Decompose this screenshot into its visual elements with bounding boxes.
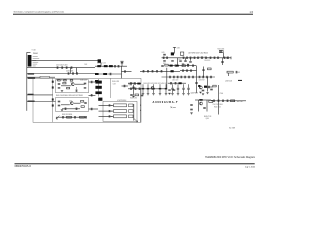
wire buf bottom bbox=[62, 108, 80, 110]
capacitor C497 bbox=[202, 89, 205, 92]
ground C497 bbox=[202, 94, 204, 95]
wire osc out right bbox=[89, 108, 99, 110]
capacitor C482 bbox=[176, 76, 179, 79]
wire mb v3 bbox=[207, 77, 209, 92]
resistor R424 bbox=[219, 50, 223, 52]
wire box inner right bbox=[109, 78, 111, 98]
varactor network D1 bbox=[129, 104, 134, 107]
inductor L412 bbox=[109, 65, 113, 67]
svg-text:P4001: P4001 bbox=[33, 53, 38, 55]
svg-text:B+ 9.6V: B+ 9.6V bbox=[229, 128, 236, 130]
wire mb v2 bbox=[196, 66, 198, 93]
capacitor C458 bbox=[205, 57, 208, 60]
capacitor C463 bbox=[174, 64, 177, 67]
inductor L421 bbox=[170, 65, 173, 67]
capacitor C488 bbox=[130, 94, 133, 97]
capacitor C422 bbox=[75, 89, 78, 92]
arrow bottom adjust bbox=[56, 116, 59, 119]
arrow resonator adjust bbox=[134, 118, 138, 122]
resistor R410 bbox=[80, 101, 83, 103]
wire mb row2 bbox=[162, 76, 216, 78]
inductor L4 block bbox=[98, 59, 101, 63]
capacitor C444 bbox=[109, 73, 112, 76]
wire mb row3 bbox=[128, 83, 141, 85]
capacitor C505 bbox=[235, 71, 238, 74]
capacitor C512 bbox=[203, 107, 206, 110]
capacitor C464 bbox=[192, 64, 195, 67]
resistor R403 bbox=[63, 82, 66, 84]
wire net A to buffer bbox=[31, 60, 98, 62]
connector pin label TX/RX SW bbox=[33, 57, 40, 60]
resistor R428 bbox=[182, 65, 185, 67]
inductor L414 bbox=[103, 73, 107, 75]
ground osc bbox=[61, 90, 63, 91]
svg-text:C408: C408 bbox=[84, 64, 87, 66]
capacitor C441 bbox=[117, 65, 120, 68]
capacitor C478 bbox=[130, 82, 133, 85]
svg-text:R445 C513: R445 C513 bbox=[204, 116, 211, 118]
capacitor C491 shunt bbox=[147, 84, 149, 93]
capacitor C488 bbox=[202, 76, 205, 79]
svg-text:C456 R426: C456 R426 bbox=[204, 60, 210, 62]
svg-text:Schematics, Component Location: Schematics, Component Location Diagrams,… bbox=[14, 11, 65, 14]
capacitor C457a bbox=[223, 57, 226, 60]
svg-text:C481 C483: C481 C483 bbox=[172, 80, 178, 82]
capacitor C481 bbox=[172, 76, 175, 79]
capacitor C423 bbox=[84, 82, 87, 85]
capacitor C504 bbox=[226, 100, 229, 103]
wire q406 e bbox=[198, 100, 200, 112]
inductor L422 bbox=[171, 70, 174, 72]
svg-text:C401 C402 C403: C401 C402 C403 bbox=[56, 64, 67, 66]
svg-text:R442: R442 bbox=[237, 72, 240, 74]
capacitor C471 bbox=[147, 70, 150, 73]
svg-text:L419: L419 bbox=[162, 52, 165, 54]
connector P4001 pin block bbox=[28, 55, 32, 67]
inductor L427 bbox=[199, 99, 202, 101]
node resonator a bbox=[139, 104, 142, 107]
ground comb 5 bbox=[171, 94, 173, 95]
capacitor C486 bbox=[134, 88, 137, 91]
connector pin label GND bbox=[33, 65, 36, 68]
capacitor C462 bbox=[189, 60, 192, 63]
wire net C bus bbox=[27, 73, 95, 75]
wire rm vertical bbox=[217, 85, 219, 115]
capacitor C501 bbox=[213, 100, 216, 103]
inductor L406 block bbox=[95, 86, 101, 89]
tick divider 4 bbox=[52, 104, 54, 106]
wire c448 link bbox=[122, 85, 129, 87]
svg-text:HLE9808A 800 MHz VCO: Schemati: HLE9808A 800 MHz VCO: Schematic Diagram bbox=[205, 156, 255, 159]
capacitor C461 bbox=[184, 60, 187, 63]
ground comb 1 bbox=[147, 94, 149, 95]
capacitor C449b bbox=[171, 59, 174, 62]
svg-text:L410 L411 C440: L410 L411 C440 bbox=[97, 63, 106, 65]
connector pin label SYNTH V bbox=[33, 61, 39, 64]
capacitor C421 bbox=[58, 86, 61, 89]
capacitor C4511 bbox=[217, 57, 220, 60]
capacitor C4810 bbox=[210, 76, 213, 79]
node tr bus a bbox=[191, 56, 194, 59]
capacitor C498 bbox=[210, 88, 213, 91]
capacitor C438b bbox=[90, 108, 93, 111]
capacitor C457b bbox=[227, 57, 230, 60]
resistor R440 bbox=[231, 100, 235, 102]
capacitor C465 bbox=[187, 64, 190, 67]
ground v3 bbox=[206, 92, 208, 93]
resistor R444 bbox=[209, 100, 213, 102]
wire resonator right bus bbox=[140, 88, 142, 122]
stripline Z3 bbox=[114, 115, 127, 118]
wire buf base bbox=[61, 104, 70, 106]
capacitor C459 bbox=[221, 61, 224, 64]
capacitor C483 bbox=[180, 76, 183, 79]
node stripline 3 bbox=[110, 115, 113, 118]
capacitor Cfeed2 bbox=[108, 110, 111, 112]
capacitor C510 bbox=[190, 104, 193, 107]
capacitor C486 bbox=[192, 76, 195, 79]
wire tr stub3 bbox=[190, 58, 192, 61]
net label MOD bbox=[28, 94, 34, 95]
wire net D cont bbox=[50, 76, 56, 78]
capacitor C479 bbox=[134, 82, 137, 85]
capacitor C404 bbox=[70, 66, 73, 69]
svg-text:R416 C438: R416 C438 bbox=[112, 81, 119, 83]
capacitor C406 bbox=[72, 72, 75, 75]
capacitor C447 bbox=[132, 86, 135, 89]
capacitor C454 bbox=[189, 57, 192, 60]
wire stripline 2 feed bbox=[99, 110, 114, 112]
capacitor C433 bbox=[62, 116, 65, 119]
svg-text:L430 C506: L430 C506 bbox=[225, 81, 232, 83]
wire stripline 1 feed bbox=[99, 104, 114, 106]
capacitor C492 shunt bbox=[152, 84, 154, 93]
wire left vertical bus bbox=[26, 52, 28, 111]
resistor R413 bbox=[67, 116, 72, 118]
inductor L408 block bbox=[98, 98, 102, 101]
wire mb row4 bbox=[128, 88, 167, 90]
capacitor C472 bbox=[151, 70, 154, 73]
resistor R439 bbox=[213, 85, 216, 87]
capacitor C48a bbox=[170, 82, 173, 85]
wire adapt in bbox=[27, 101, 56, 103]
tick divider 1 bbox=[52, 81, 54, 83]
svg-text:Q401: Q401 bbox=[70, 82, 73, 84]
svg-text:Q405 R438: Q405 R438 bbox=[191, 93, 198, 95]
capacitor C419 on edge bbox=[64, 79, 67, 81]
header rule bbox=[13, 14, 253, 15]
wire mb v1 bbox=[166, 68, 168, 89]
transistor Q406 bbox=[200, 102, 203, 105]
wire buf right bbox=[74, 102, 80, 104]
connector pin label PRESC bbox=[33, 63, 38, 66]
ground 1695 bbox=[168, 93, 170, 94]
net label VSF bbox=[28, 73, 34, 74]
capacitor C431 bbox=[58, 104, 61, 107]
capacitor C436 bbox=[90, 81, 93, 84]
stripline Z1 bbox=[114, 104, 127, 107]
capacitor C480 bbox=[169, 76, 172, 79]
svg-text:C501 C502 R440: C501 C502 R440 bbox=[213, 104, 223, 106]
capacitor C401 bbox=[56, 66, 59, 69]
inductor L407 block bbox=[95, 91, 101, 94]
svg-text:4.6V: 4.6V bbox=[177, 48, 180, 50]
capacitor C503 bbox=[222, 100, 225, 103]
capacitor C511 bbox=[190, 108, 193, 111]
wire tr drop1 bbox=[177, 58, 179, 66]
ground C511 bbox=[190, 113, 192, 114]
svg-text:Q402: Q402 bbox=[69, 100, 72, 102]
wire connector top tick bbox=[27, 51, 31, 53]
svg-text:6880976C05-O: 6880976C05-O bbox=[15, 165, 32, 168]
capacitor C466 bbox=[182, 69, 185, 72]
ground comb 6 bbox=[177, 94, 179, 95]
wire tr stub2 bbox=[185, 58, 187, 60]
capacitor C458 bbox=[220, 50, 223, 53]
wire rm chain bbox=[211, 100, 246, 102]
svg-text:R441 C504: R441 C504 bbox=[214, 107, 221, 109]
resistor R435 bbox=[135, 94, 139, 96]
wire tr bus bbox=[162, 57, 232, 59]
capacitor C450 bbox=[162, 57, 165, 60]
varactor network D2 bbox=[129, 110, 134, 113]
capacitor C430 bbox=[58, 100, 61, 103]
wire L4 drop bbox=[100, 63, 102, 66]
ground tr1 bbox=[182, 64, 184, 65]
capacitor C470 bbox=[142, 70, 145, 73]
wire mb row1b bbox=[168, 70, 180, 72]
transistor Q404 bbox=[151, 86, 154, 89]
svg-text:C500: C500 bbox=[220, 93, 224, 95]
connector pin label SUPER FLT bbox=[33, 55, 38, 58]
capacitor C448 bbox=[123, 85, 126, 88]
capacitor C493 shunt bbox=[159, 84, 161, 93]
net label ADAPT bbox=[28, 101, 35, 102]
svg-text:C490 R432 C491 R433 C492 L424: C490 R432 C491 R433 C492 L424 C493 bbox=[143, 83, 168, 85]
ground comb 4 bbox=[165, 94, 167, 95]
resistor R422 bbox=[180, 52, 183, 55]
transistor Q405 bbox=[199, 86, 202, 89]
capacitor C459 bbox=[209, 57, 212, 60]
capacitor C474 bbox=[160, 70, 163, 73]
wire mid out bbox=[122, 71, 132, 73]
ground comb 0 bbox=[142, 94, 144, 95]
transistor Q405 body bbox=[198, 85, 200, 87]
capacitor C418 on edge bbox=[58, 79, 61, 81]
connector pin label 5V bbox=[33, 59, 37, 62]
capacitor C445 bbox=[124, 70, 127, 73]
resonator box outline bbox=[103, 101, 137, 121]
tick divider 3 bbox=[52, 98, 54, 100]
inductor dash bbox=[238, 80, 242, 81]
node tr bus b bbox=[207, 56, 210, 59]
footer rule bbox=[15, 163, 255, 164]
inductor L426 bbox=[204, 86, 207, 88]
resistor R442 bbox=[227, 71, 233, 73]
svg-text:A3 TX/RX 4.6V C452 R425: A3 TX/RX 4.6V C452 R425 bbox=[189, 51, 208, 54]
resistor R411 bbox=[81, 106, 84, 108]
capacitor C457 bbox=[201, 57, 204, 60]
ground Q405 bbox=[199, 92, 201, 93]
wire supply stub Q403 bbox=[174, 47, 176, 53]
capacitor C467 bbox=[186, 69, 189, 72]
svg-text:RF OUT: RF OUT bbox=[237, 101, 243, 103]
wire v 2035 bbox=[203, 67, 205, 78]
wire bus1 up stub bbox=[121, 62, 123, 66]
resistor R404 bbox=[67, 87, 70, 89]
ground tr2 bbox=[187, 64, 189, 65]
node stripline 1 bbox=[110, 104, 113, 107]
capacitor C460 bbox=[179, 60, 182, 63]
capacitor C489 bbox=[141, 94, 144, 97]
capacitor C496 shunt bbox=[177, 84, 179, 93]
svg-text:C439: C439 bbox=[113, 83, 116, 85]
capacitor C455 bbox=[193, 57, 196, 60]
supply 4.6V bbox=[173, 46, 176, 48]
ground comb 2 bbox=[152, 94, 154, 95]
capacitor Cfeed1 bbox=[108, 104, 111, 106]
ground buffer bbox=[61, 110, 63, 111]
capacitor C469 bbox=[202, 69, 205, 72]
wire bus end drop bbox=[222, 58, 224, 65]
wire net B bus bbox=[27, 67, 95, 69]
stripline Z2 bbox=[114, 110, 127, 113]
capacitor C453 bbox=[186, 57, 189, 60]
capacitor C432 bbox=[64, 108, 67, 111]
capacitor C495 shunt bbox=[171, 84, 173, 93]
capacitor C451 bbox=[166, 57, 169, 60]
wire ur stub bbox=[227, 73, 229, 76]
capacitor C498 shunt bbox=[187, 84, 189, 93]
svg-text:R405 C424 R406 C426 L403 C427: R405 C424 R406 C426 L403 C427 R408 bbox=[56, 95, 83, 97]
capacitor C440 bbox=[114, 65, 117, 68]
capacitor C405 bbox=[67, 72, 70, 75]
capacitor C487 bbox=[138, 88, 141, 91]
tick divider 2 bbox=[52, 86, 54, 88]
capacitor C4510 bbox=[213, 57, 216, 60]
inductor L415 bbox=[95, 80, 98, 82]
capacitor C451b bbox=[163, 53, 166, 56]
inductor L413 bbox=[95, 73, 99, 75]
capacitor C468 bbox=[190, 69, 193, 72]
capacitor C475 bbox=[161, 65, 164, 68]
wire osc to ind bbox=[89, 81, 96, 83]
resistor R430 bbox=[165, 64, 168, 66]
wire tr sub-bus bbox=[168, 65, 197, 67]
wire buf to ind bbox=[89, 94, 96, 96]
capacitor C437 bbox=[90, 94, 93, 97]
inductor L423 bbox=[137, 83, 140, 85]
capacitor C489 bbox=[206, 76, 209, 79]
wire osc right bbox=[75, 83, 85, 85]
capacitor C435 bbox=[84, 102, 87, 105]
wire mid bus2 bbox=[95, 73, 122, 75]
capacitor C495 bbox=[208, 86, 211, 89]
wire q406 bus bbox=[195, 99, 211, 101]
wire stripline 3 feed bbox=[99, 115, 114, 117]
svg-text:July 1, 2002: July 1, 2002 bbox=[245, 167, 256, 169]
node resonator b bbox=[139, 109, 142, 112]
inductor L405 block bbox=[95, 81, 101, 84]
wire q405 out bbox=[207, 86, 213, 88]
wire bus1 drop bbox=[121, 66, 123, 78]
wire osc base bbox=[61, 85, 71, 87]
wire x133 string bbox=[133, 85, 135, 96]
svg-text:A3000AURA-T: A3000AURA-T bbox=[153, 100, 179, 104]
transistor Q401 bbox=[71, 83, 74, 86]
transistor Q402 bbox=[70, 102, 73, 105]
varactor network D3 bbox=[129, 115, 134, 118]
wire shield divider bbox=[52, 78, 54, 122]
wire mod in bbox=[27, 94, 53, 96]
capacitor C420 bbox=[58, 83, 61, 86]
resistor R414 bbox=[80, 116, 85, 118]
svg-text:R436 C494: R436 C494 bbox=[130, 98, 137, 100]
capacitor C449a bbox=[163, 59, 166, 62]
svg-text:TP401: TP401 bbox=[128, 85, 132, 87]
capacitor C403 bbox=[65, 66, 68, 69]
capacitor C423b bbox=[84, 86, 87, 89]
wire ind column bbox=[98, 79, 100, 97]
wire tie BC 2 bbox=[76, 68, 78, 74]
node stripline 2 bbox=[110, 110, 113, 113]
capacitor C407 bbox=[76, 72, 79, 75]
capacitor C502 bbox=[217, 100, 220, 103]
capacitor C402 bbox=[61, 66, 64, 69]
capacitor C476a bbox=[168, 89, 171, 92]
inductor L428 bbox=[176, 65, 179, 67]
wire mb row1 bbox=[140, 70, 168, 72]
wire mid bus3 bbox=[95, 80, 99, 82]
wire mb row2b bbox=[168, 82, 186, 84]
resistor R429 bbox=[208, 68, 212, 70]
capacitor C485 bbox=[130, 88, 133, 91]
capacitor C485 bbox=[188, 76, 191, 79]
wire tie BC 1 bbox=[70, 68, 72, 74]
wire tr bus end tick bbox=[230, 57, 232, 60]
inductor L411 bbox=[104, 65, 108, 67]
buffer section box bbox=[56, 98, 89, 112]
svg-text:C453 C455: C453 C455 bbox=[199, 55, 205, 57]
capacitor C434b bbox=[85, 116, 88, 119]
svg-text:C405 C406: C405 C406 bbox=[66, 71, 73, 73]
capacitor C473 bbox=[156, 70, 159, 73]
capacitor C452 bbox=[182, 57, 185, 60]
ground comb 7 bbox=[182, 94, 184, 95]
svg-text:Q406: Q406 bbox=[206, 118, 209, 120]
svg-text:C486 R437: C486 R437 bbox=[199, 80, 205, 82]
capacitor C442 bbox=[121, 61, 124, 64]
oscillator section box bbox=[56, 80, 89, 93]
wire bottom net bbox=[56, 116, 86, 118]
shield box A4001 outline bbox=[33, 78, 141, 122]
node osc e bbox=[75, 87, 78, 90]
svg-text:R413 C433 R414: R413 C433 R414 bbox=[62, 114, 72, 116]
capacitor C476b bbox=[173, 89, 176, 92]
capacitor C497 shunt bbox=[182, 84, 184, 93]
wire net D bbox=[27, 76, 40, 78]
capacitor C456 bbox=[197, 57, 200, 60]
wire R424 stub bbox=[223, 53, 225, 58]
capacitor C496 bbox=[195, 82, 198, 85]
wire q406 c bbox=[206, 100, 208, 112]
capacitor C48b bbox=[174, 82, 177, 85]
svg-text:R425: R425 bbox=[179, 59, 182, 61]
capacitor C494 shunt bbox=[165, 84, 167, 93]
inductor L425 bbox=[179, 82, 182, 84]
capacitor C434 bbox=[74, 116, 77, 119]
wire mid row70 bbox=[180, 70, 197, 72]
